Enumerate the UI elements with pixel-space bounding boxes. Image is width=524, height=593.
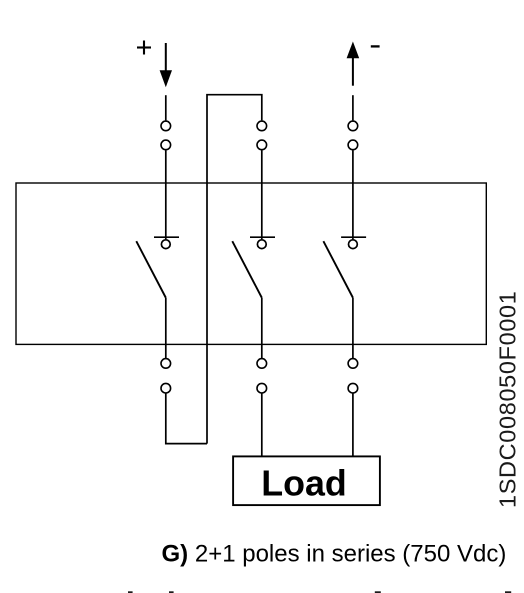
- pole 3 breaker (switch): [323, 150, 366, 358]
- svg-text:Load: Load: [261, 464, 347, 504]
- pole 1 bottom isolating contact circles: [161, 359, 171, 393]
- pole 1 top isolating contact circles: [161, 121, 171, 150]
- wire: top jumper (pole1 bottom riser to pole2 top): [207, 95, 262, 444]
- enclosure box: [16, 183, 486, 344]
- wire: pole 2 bottom to load: [261, 393, 263, 456]
- pole 2 bottom isolating contact circles: [257, 359, 267, 393]
- supply arrow - (up): [347, 42, 360, 86]
- pole 2 top isolating contact circles: [257, 121, 267, 150]
- load box: [233, 456, 380, 505]
- pole 2 breaker (switch): [232, 150, 275, 358]
- wire: bottom jumper pole1 to riser: [166, 393, 207, 443]
- plus polarity label: [137, 41, 151, 55]
- cropped next-line text fragments at bottom edge: [128, 591, 511, 593]
- wire: pole 3 bottom to load: [352, 393, 354, 456]
- pole 1 breaker (switch): [136, 150, 179, 358]
- wire: pole 3 top terminal to - arrow: [352, 95, 354, 120]
- pole 3 bottom isolating contact circles: [348, 359, 358, 393]
- minus polarity label: [371, 45, 380, 47]
- svg-text:1SDC008050F0001: 1SDC008050F0001: [495, 291, 521, 509]
- pole 3 top isolating contact circles: [348, 121, 358, 150]
- wire: + feed to pole 1 top terminal: [165, 95, 167, 120]
- svg-text:G) 2+1 poles in series (750 Vd: G) 2+1 poles in series (750 Vdc): [162, 541, 507, 568]
- supply arrow + (down): [160, 43, 172, 87]
